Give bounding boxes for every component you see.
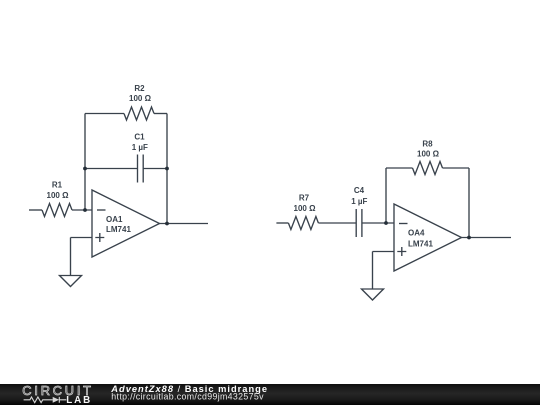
junction node C1 left — [83, 167, 87, 171]
svg-text:LM741: LM741 — [106, 225, 131, 234]
wire feedback down to output right — [468, 168, 470, 238]
wire feedback vertical up right circuit — [385, 168, 387, 223]
logo resistor squiggle — [24, 397, 53, 403]
wire C1 left segment — [85, 168, 138, 170]
wire output left circuit — [160, 223, 209, 225]
wire C1 right segment — [143, 168, 167, 170]
wire R2 top right segment — [154, 113, 167, 115]
svg-text:R8: R8 — [422, 139, 433, 148]
junction node right inverting input — [384, 221, 388, 225]
op-amp OA4 plus input marker — [397, 247, 406, 256]
wire input left segment — [29, 209, 42, 211]
resistor R7 — [288, 217, 318, 230]
wire noninverting input right — [373, 251, 395, 253]
op-amp OA1 plus input marker — [95, 233, 104, 242]
wire R2 top left segment — [85, 113, 124, 115]
ground symbol left — [60, 276, 82, 287]
op-amp U1 OA1 triangle — [92, 190, 160, 257]
svg-text:OA4: OA4 — [408, 229, 425, 238]
wire R7 to C4 — [318, 222, 356, 224]
resistor R8 — [413, 162, 443, 175]
junction node right output — [467, 236, 471, 240]
svg-text:LM741: LM741 — [408, 239, 433, 248]
wire down to ground left — [70, 238, 72, 276]
op-amp OA1 minus input marker — [97, 209, 106, 211]
svg-text:R1: R1 — [52, 181, 63, 190]
wire feedback right vertical to output — [166, 114, 168, 224]
junction node C1 right — [165, 167, 169, 171]
logo diode — [53, 397, 59, 403]
wire R8 right segment — [443, 167, 470, 169]
svg-text:100 Ω: 100 Ω — [294, 204, 317, 213]
resistor R1 — [42, 204, 72, 217]
capacitor C4 — [356, 209, 362, 237]
svg-text:C4: C4 — [354, 186, 365, 195]
resistor R2 — [124, 107, 154, 120]
svg-text:100 Ω: 100 Ω — [47, 191, 70, 200]
ground symbol right — [362, 289, 384, 300]
op-amp U4 OA4 triangle — [394, 204, 462, 271]
wire output right circuit — [462, 237, 512, 239]
svg-text:100 Ω: 100 Ω — [417, 149, 440, 158]
footer bar — [0, 384, 540, 405]
wire feedback left vertical (node A) — [84, 114, 86, 211]
svg-text:LAB: LAB — [66, 395, 92, 405]
svg-text:R2: R2 — [134, 84, 145, 93]
wire R8 left segment — [386, 167, 413, 169]
wire input right segment — [276, 222, 288, 224]
wire down to ground right — [372, 252, 374, 290]
svg-text:http://circuitlab.com/cd99jm43: http://circuitlab.com/cd99jm432575v — [111, 392, 264, 402]
wire R1 to inverting input node — [72, 209, 92, 211]
svg-text:100 Ω: 100 Ω — [129, 94, 152, 103]
wire C4 to inverting input — [362, 222, 394, 224]
svg-text:C1: C1 — [134, 133, 145, 142]
svg-text:1 µF: 1 µF — [351, 197, 367, 206]
junction node left inverting input — [83, 208, 87, 212]
op-amp OA4 minus input marker — [399, 223, 408, 225]
svg-text:OA1: OA1 — [106, 215, 123, 224]
svg-text:R7: R7 — [299, 194, 310, 203]
junction node left output — [165, 222, 169, 226]
svg-text:1 µF: 1 µF — [132, 143, 148, 152]
wire noninverting input left — [71, 237, 93, 239]
capacitor C1 — [138, 155, 144, 183]
